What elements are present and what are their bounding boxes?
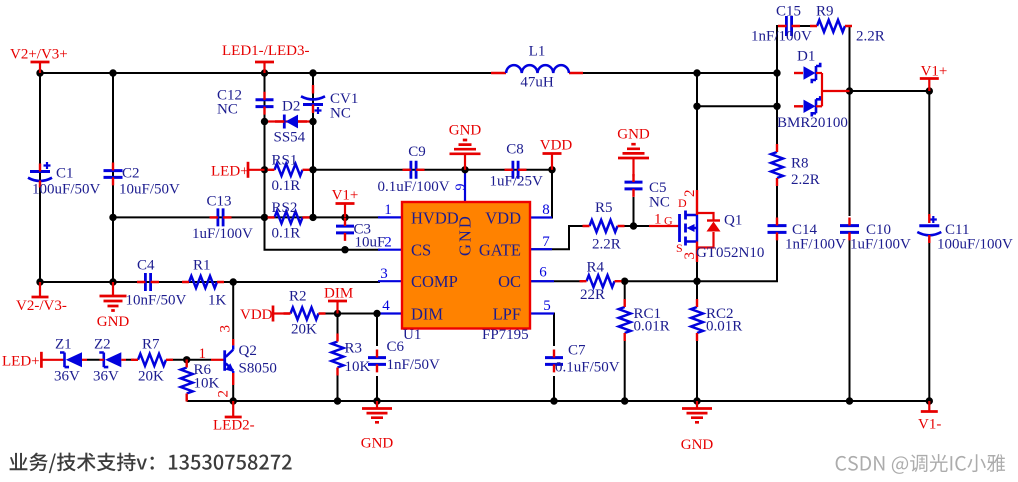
node LED2	[230, 397, 237, 404]
wire RC2 column	[696, 281, 698, 401]
node anode top	[773, 69, 780, 76]
svg-text:10K: 10K	[345, 359, 371, 375]
resistor RC2	[691, 307, 703, 333]
terminal LED+ lower	[40, 352, 43, 368]
svg-text:3: 3	[218, 325, 234, 333]
wire C7 to rail	[553, 376, 555, 401]
svg-text:V1-: V1-	[918, 417, 941, 433]
wire Q2 emitter column	[232, 385, 234, 401]
wire top rail V2+ to L1	[40, 72, 497, 74]
resistor R4	[587, 275, 615, 287]
capacitor C13	[218, 208, 223, 226]
svg-text:20K: 20K	[291, 322, 317, 338]
svg-text:10uF: 10uF	[355, 235, 386, 251]
wire Q2 collector column	[232, 282, 234, 339]
svg-text:1uF/100V: 1uF/100V	[192, 226, 253, 242]
node C6 bottom	[373, 397, 380, 404]
svg-text:R2: R2	[289, 289, 307, 305]
svg-text:1: 1	[654, 212, 662, 228]
node GND9	[461, 166, 468, 173]
node gate RC	[630, 222, 637, 229]
node V2+ corner	[36, 69, 43, 76]
contact text	[10, 453, 292, 474]
svg-text:D: D	[678, 196, 687, 210]
node switch top	[693, 69, 700, 76]
svg-text:6: 6	[539, 265, 547, 281]
diode D1b	[794, 105, 803, 107]
svg-text:VDD: VDD	[485, 209, 521, 228]
wire C11 column	[928, 91, 930, 401]
node GND left	[109, 278, 116, 285]
wire pin7 stub	[530, 248, 552, 250]
svg-text:DIM: DIM	[324, 286, 353, 302]
wire switch-node to D1 bottom anode row	[697, 73, 777, 106]
svg-text:C2: C2	[122, 166, 140, 182]
svg-text:9: 9	[454, 184, 469, 191]
svg-text:GT052N10: GT052N10	[696, 245, 764, 261]
terminal DIM	[336, 301, 338, 314]
capacitor C7	[545, 358, 563, 365]
wire pin6 stub	[530, 280, 554, 282]
wire snubber right column upper	[849, 73, 851, 91]
resistor R3	[332, 342, 344, 368]
svg-text:1nF/100V: 1nF/100V	[785, 237, 846, 253]
svg-text:1K: 1K	[208, 293, 227, 309]
ground GND right	[696, 401, 698, 409]
resistor R2	[291, 308, 319, 320]
svg-text:LED+: LED+	[211, 164, 249, 180]
svg-text:7: 7	[542, 234, 550, 250]
svg-text:10nF/50V: 10nF/50V	[126, 293, 187, 309]
node V1- corner	[926, 397, 933, 404]
resistor RS2	[275, 211, 303, 223]
svg-text:R3: R3	[345, 341, 363, 357]
svg-text:0.01R: 0.01R	[634, 319, 670, 335]
terminal LED2-	[232, 401, 234, 417]
capacitor C6	[368, 358, 386, 365]
svg-text:FP7195: FP7195	[482, 327, 529, 343]
ground GND mid-left	[112, 282, 114, 296]
svg-text:1nF/100V: 1nF/100V	[751, 29, 812, 45]
ground GND top-center	[464, 154, 466, 170]
watermark CSDN	[836, 454, 1005, 474]
terminal V2+/V3+	[39, 62, 41, 73]
ground GND above C5	[632, 158, 634, 177]
svg-text:GND: GND	[361, 436, 394, 452]
node base	[183, 356, 190, 363]
wire C2 column	[112, 73, 114, 282]
capacitor CV1	[301, 96, 325, 99]
wire R3 column	[337, 314, 339, 402]
node LED1 top	[261, 69, 268, 76]
svg-text:1nF/50V: 1nF/50V	[387, 357, 441, 373]
diode D2 SS54	[286, 115, 299, 129]
wire pin1 stub	[378, 216, 402, 218]
capacitor C11	[919, 224, 939, 227]
wire C6 column	[376, 314, 378, 402]
svg-text:L1: L1	[529, 44, 546, 60]
svg-text:R4: R4	[587, 260, 605, 276]
terminal LED1-/LED3-	[263, 62, 265, 73]
zener Z2	[105, 352, 121, 367]
wire GATE routing	[530, 226, 583, 249]
wire cathode node to V1+ rail	[850, 90, 930, 92]
node C6 top	[373, 310, 380, 317]
svg-text:C4: C4	[137, 258, 155, 274]
wire pin3 stub	[378, 280, 402, 282]
svg-text:RS1: RS1	[272, 153, 298, 169]
wire pin9 stub	[464, 170, 466, 202]
wire pin5 stub	[530, 312, 554, 314]
terminal V2-/V3-	[39, 282, 41, 297]
capacitor C8	[513, 161, 518, 179]
svg-text:GATE: GATE	[479, 241, 521, 260]
svg-text:R7: R7	[142, 337, 160, 353]
svg-text:HVDD: HVDD	[411, 209, 459, 228]
svg-text:0.1uF/100V: 0.1uF/100V	[378, 179, 450, 195]
wire left column C1	[39, 73, 41, 282]
svg-text:GND: GND	[681, 437, 714, 453]
svg-text:36V: 36V	[54, 369, 80, 385]
node C13 junction	[109, 214, 116, 221]
capacitor C3	[336, 226, 354, 233]
op-amp U1 FP7195 body	[402, 202, 530, 329]
terminal V1-	[928, 401, 930, 412]
node RS2 left	[261, 214, 268, 221]
node Q1 source	[693, 278, 700, 285]
wire VDD pin8 riser	[530, 170, 552, 218]
svg-text:R5: R5	[595, 200, 613, 216]
wire gate node to Q1	[624, 225, 649, 227]
svg-text:GND: GND	[449, 122, 482, 138]
svg-text:RS2: RS2	[272, 200, 298, 216]
svg-text:G: G	[664, 214, 673, 228]
svg-text:22R: 22R	[580, 287, 605, 303]
svg-text:BMR20100: BMR20100	[777, 115, 848, 131]
terminal V1+ right	[928, 79, 930, 92]
svg-text:1: 1	[199, 346, 207, 362]
capacitor C2	[104, 171, 123, 178]
svg-text:100uF/50V: 100uF/50V	[32, 182, 101, 198]
wire C5 column	[633, 197, 635, 226]
svg-text:C1: C1	[56, 166, 74, 182]
svg-text:8: 8	[542, 202, 550, 218]
svg-text:47uH: 47uH	[520, 75, 554, 91]
node anode bottom	[773, 103, 780, 110]
wire bottom rail	[187, 400, 930, 402]
svg-text:2: 2	[216, 390, 232, 398]
wire RC1 column	[624, 281, 626, 401]
svg-text:0.1R: 0.1R	[272, 226, 301, 242]
resistor RS1	[275, 164, 303, 176]
wire snubber loop	[777, 26, 850, 73]
node DIM	[334, 310, 341, 317]
svg-text:1uF/100V: 1uF/100V	[850, 237, 911, 253]
svg-text:R8: R8	[791, 156, 809, 172]
node RS1 left	[261, 118, 268, 125]
resistor R7	[138, 354, 166, 366]
node VDD top	[548, 166, 555, 173]
resistor R6	[181, 368, 193, 394]
svg-text:5: 5	[543, 298, 551, 314]
wire R2-DIM-pin4	[325, 313, 380, 315]
ground GND center	[376, 401, 378, 409]
wire R8 to C14	[776, 186, 778, 218]
node R3 bottom	[334, 397, 341, 404]
transistor Q2 S8050	[211, 359, 225, 361]
svg-text:C13: C13	[207, 194, 232, 210]
svg-text:0.1uF/50V: 0.1uF/50V	[555, 360, 620, 376]
svg-text:1uF/25V: 1uF/25V	[490, 174, 544, 190]
terminal V1+ left	[344, 204, 346, 218]
node R4 right	[621, 278, 628, 285]
svg-text:LED2-: LED2-	[213, 418, 255, 434]
wire x777 column anodes to R8	[776, 73, 778, 144]
wire switch node vertical to Q1 drain	[696, 106, 698, 191]
svg-text:0.1R: 0.1R	[272, 178, 301, 194]
capacitor C15	[786, 16, 791, 36]
svg-text:Q1: Q1	[724, 213, 742, 229]
node switch mid	[693, 103, 700, 110]
svg-text:C8: C8	[506, 142, 524, 158]
capacitor C12	[256, 100, 274, 107]
wire pin2 stub	[378, 249, 402, 251]
svg-text:R1: R1	[193, 258, 211, 274]
node V2- corner	[36, 278, 43, 285]
svg-text:OC: OC	[498, 272, 521, 291]
wire pin8 stub	[530, 216, 552, 218]
svg-text:V2-/V3-: V2-/V3-	[16, 298, 67, 314]
resistor RC1	[619, 307, 631, 333]
svg-text:GND: GND	[97, 314, 130, 330]
resistor R9	[817, 20, 845, 32]
svg-text:COMP: COMP	[411, 272, 458, 291]
svg-text:VDD: VDD	[540, 138, 573, 154]
capacitor C5	[625, 182, 643, 189]
svg-text:Q2: Q2	[239, 343, 257, 359]
svg-text:C6: C6	[387, 339, 405, 355]
node CV1 top	[309, 69, 316, 76]
wire R4 to RC1/RC2/corner	[621, 238, 777, 281]
svg-text:2.2R: 2.2R	[791, 172, 820, 188]
node cathode join	[846, 87, 853, 94]
svg-text:36V: 36V	[93, 369, 119, 385]
node LED+ row left	[261, 166, 268, 173]
node C2 top	[109, 69, 116, 76]
svg-text:10uF/50V: 10uF/50V	[119, 182, 180, 198]
svg-text:Z2: Z2	[94, 337, 111, 353]
svg-text:D1: D1	[797, 49, 815, 65]
capacitor C4	[145, 273, 150, 291]
capacitor C9	[411, 161, 416, 179]
wire LPF to C7	[530, 314, 554, 347]
node RC1 bottom	[621, 397, 628, 404]
svg-text:GND: GND	[617, 127, 650, 143]
svg-text:DIM: DIM	[411, 304, 443, 323]
svg-text:3: 3	[380, 266, 388, 282]
svg-text:1: 1	[384, 202, 392, 218]
svg-text:R9: R9	[816, 4, 834, 20]
wire top rail L1 to switch node	[578, 72, 777, 74]
wire mid-left rail to COMP	[40, 281, 380, 283]
resistor R8	[771, 152, 783, 178]
svg-text:0.01R: 0.01R	[706, 319, 742, 335]
wire base row	[187, 359, 211, 361]
svg-text:LED1-/LED3-: LED1-/LED3-	[222, 43, 309, 59]
svg-text:C9: C9	[408, 144, 426, 160]
svg-text:NC: NC	[217, 102, 238, 118]
zener Z1	[66, 352, 82, 367]
node RS1 right	[309, 118, 316, 125]
diode D1a	[794, 72, 803, 74]
node C7 bottom	[550, 397, 557, 404]
wire pin4 stub	[378, 312, 402, 314]
svg-text:4: 4	[382, 298, 390, 314]
svg-text:Z1: Z1	[55, 337, 72, 353]
node C3 bottom	[341, 246, 348, 253]
svg-text:C15: C15	[776, 4, 801, 20]
wire CS branch	[265, 217, 381, 249]
wire RS1 row to C9/C8/VDD	[313, 169, 552, 171]
wire R6 bottom corner	[186, 398, 188, 401]
svg-text:NC: NC	[330, 106, 351, 122]
svg-text:V1+: V1+	[332, 188, 359, 204]
svg-text:V1+: V1+	[921, 64, 948, 80]
svg-text:CS: CS	[411, 241, 431, 260]
svg-text:LED+: LED+	[2, 354, 40, 370]
svg-text:NC: NC	[649, 195, 670, 211]
svg-text:GND: GND	[456, 214, 475, 256]
svg-text:2: 2	[682, 190, 698, 198]
svg-text:U1: U1	[403, 327, 421, 343]
svg-text:V2+/V3+: V2+/V3+	[10, 47, 68, 63]
transistor Q1 GT052N10	[678, 214, 681, 242]
wire CV1 column	[312, 73, 314, 217]
resistor R5	[590, 220, 618, 232]
terminal VDD top	[551, 154, 553, 170]
node V1+ term	[926, 87, 933, 94]
wire Z row black segs	[87, 359, 187, 361]
wire OC to R4	[530, 280, 583, 282]
svg-text:2.2R: 2.2R	[592, 237, 621, 253]
svg-text:LPF: LPF	[493, 304, 521, 323]
node C10 bottom	[846, 397, 853, 404]
wire LED1 column C12/D2/RS1/RS2	[264, 73, 266, 217]
terminal LED+ upper	[247, 162, 250, 178]
svg-text:2.2R: 2.2R	[856, 29, 885, 45]
svg-text:S8050: S8050	[239, 361, 277, 377]
svg-text:D2: D2	[282, 99, 300, 115]
wire C10 column	[849, 91, 851, 401]
svg-text:C7: C7	[568, 343, 586, 359]
node RS2 right	[309, 214, 316, 221]
svg-text:10K: 10K	[194, 376, 220, 392]
svg-text:3: 3	[682, 252, 698, 260]
node C3 top	[341, 214, 348, 221]
capacitor C14	[768, 226, 787, 233]
svg-text:VDD: VDD	[240, 307, 273, 323]
inductor L1	[491, 72, 583, 74]
resistor R1	[189, 276, 217, 288]
capacitor C10	[840, 226, 859, 233]
wire D2 row	[265, 120, 314, 122]
svg-text:SS54: SS54	[274, 130, 306, 146]
node R1 right	[230, 278, 237, 285]
wire C13 row	[113, 216, 380, 218]
node RC2 bottom	[693, 397, 700, 404]
wire D1 cathode join	[822, 73, 850, 106]
capacitor C1	[30, 170, 50, 173]
node LED+ row right	[309, 166, 316, 173]
svg-text:20K: 20K	[138, 369, 164, 385]
svg-text:100uF/100V: 100uF/100V	[937, 237, 1013, 253]
svg-text:2: 2	[384, 234, 392, 250]
